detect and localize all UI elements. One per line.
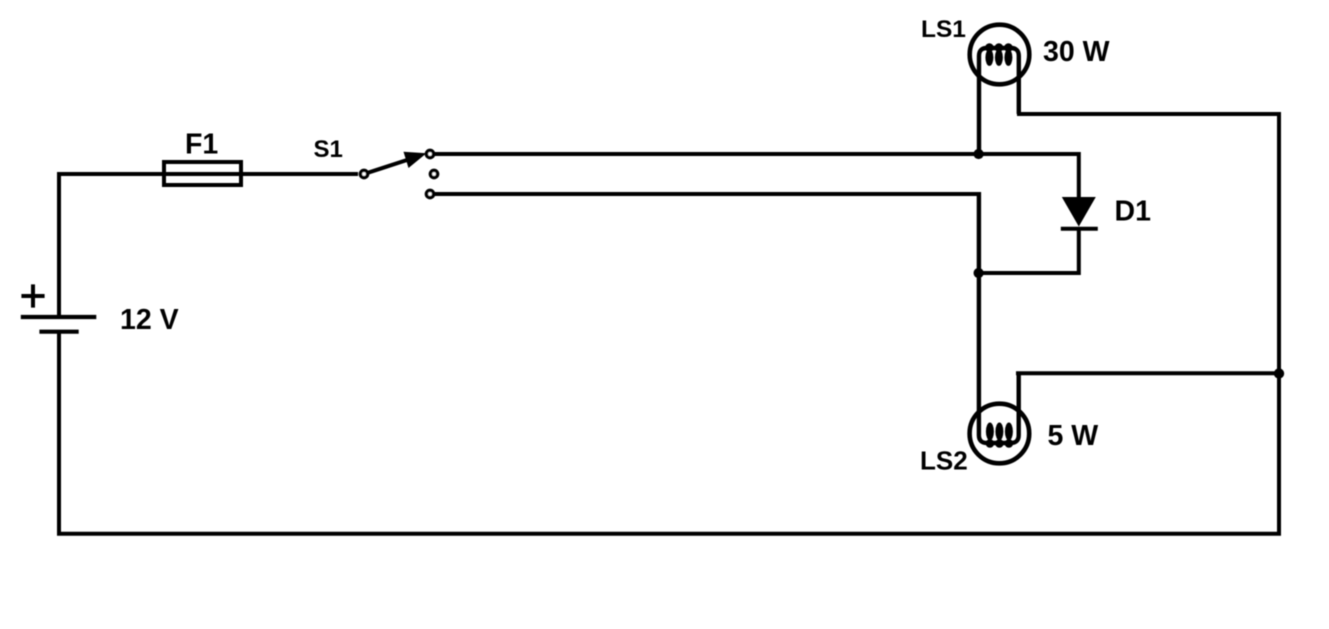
svg-text:LS2: LS2 (920, 446, 968, 476)
svg-text:30 W: 30 W (1043, 36, 1110, 68)
svg-text:12 V: 12 V (120, 304, 179, 336)
svg-text:S1: S1 (314, 136, 343, 163)
svg-text:LS1: LS1 (921, 16, 966, 43)
svg-text:D1: D1 (1115, 196, 1152, 228)
svg-text:5 W: 5 W (1048, 420, 1099, 452)
svg-text:F1: F1 (185, 129, 218, 161)
